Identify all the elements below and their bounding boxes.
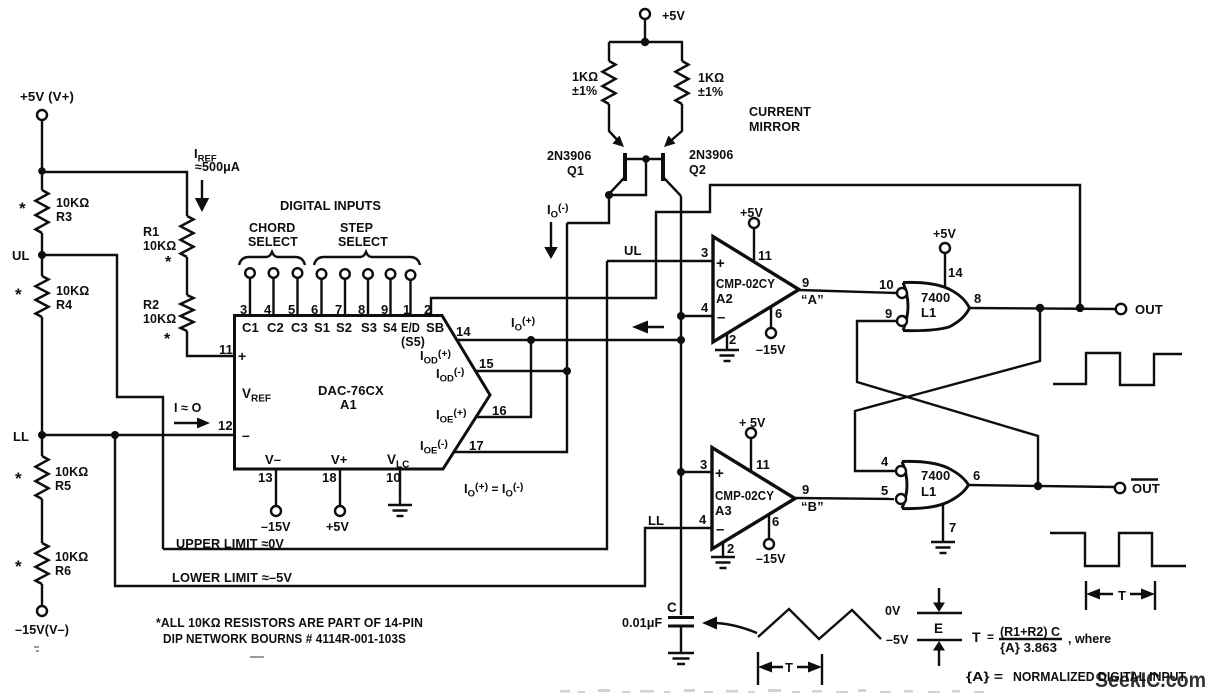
svg-text:C2: C2 — [267, 320, 284, 335]
note all 10K resistors — [156, 615, 423, 646]
DAC input labels — [242, 320, 444, 349]
svg-text:VREF: VREF — [242, 386, 271, 405]
wire R3 to UL — [41, 233, 43, 255]
svg-text:4: 4 — [881, 454, 889, 469]
A3 -15V supply — [756, 514, 786, 566]
node pin14 junction — [527, 336, 535, 344]
svg-text:T: T — [972, 629, 981, 645]
svg-text:MIRROR: MIRROR — [749, 120, 800, 134]
svg-text:–15V: –15V — [261, 520, 291, 534]
svg-text:*: * — [15, 285, 22, 304]
wire R1 to R2 — [186, 257, 188, 295]
DAC pin 18 V+ — [322, 452, 349, 534]
DAC pin 14 IOD(+) — [420, 324, 471, 367]
svg-text:9: 9 — [802, 275, 809, 290]
svg-text:S4: S4 — [383, 320, 398, 335]
svg-text:(S5): (S5) — [401, 335, 425, 349]
svg-text:*: * — [15, 557, 22, 576]
wire bus to resistors — [609, 42, 682, 61]
svg-text:C3: C3 — [291, 320, 308, 335]
op-amp U A3 — [712, 448, 795, 550]
svg-text:+5V: +5V — [933, 227, 956, 241]
wire lower limit branch down — [115, 435, 712, 586]
svg-text:14: 14 — [456, 324, 471, 339]
svg-text:+: + — [716, 255, 725, 272]
svg-text:R6: R6 — [55, 564, 71, 578]
svg-text:10: 10 — [386, 470, 401, 485]
svg-text:S2: S2 — [336, 320, 352, 335]
svg-text:IO(+): IO(+) — [511, 315, 535, 334]
svg-text:11: 11 — [219, 342, 233, 357]
dimension T triangle — [758, 652, 822, 685]
wire +5V rail down to R3 — [41, 120, 43, 190]
formula T equals — [972, 624, 1111, 655]
svg-text:9: 9 — [885, 306, 892, 321]
svg-text:E: E — [934, 621, 943, 636]
svg-text:±1%: ±1% — [698, 85, 723, 99]
svg-text:–: – — [716, 521, 724, 538]
svg-text:5: 5 — [881, 483, 888, 498]
svg-text:2N3906: 2N3906 — [547, 149, 591, 163]
label CURRENT MIRROR — [749, 105, 811, 134]
svg-text:=: = — [987, 630, 994, 644]
resistor 1K left — [572, 61, 616, 104]
svg-text:IOE(+): IOE(+) — [436, 407, 466, 426]
svg-text:“A”: “A” — [801, 292, 824, 307]
node LL branch — [111, 431, 119, 439]
svg-text:12: 12 — [218, 418, 233, 433]
svg-text:IOD(+): IOD(+) — [420, 348, 451, 367]
svg-text:15: 15 — [479, 356, 494, 371]
svg-text:*: * — [15, 469, 22, 488]
A3 pin labels — [699, 457, 824, 556]
svg-text:C: C — [667, 600, 677, 615]
arrow IO- down — [544, 222, 558, 259]
ground at capacitor — [668, 653, 694, 664]
resistor R2 — [143, 295, 194, 348]
resistor R1 — [143, 216, 194, 271]
gate2 input bubbles — [896, 466, 906, 504]
svg-text:4: 4 — [701, 300, 709, 315]
node IO+ junction — [677, 336, 685, 344]
nand gate L1a — [903, 282, 970, 330]
ground at VLC — [388, 505, 412, 516]
pin numbers top of DAC — [240, 302, 431, 317]
svg-text:0.01μF: 0.01μF — [622, 616, 662, 630]
A2 -15V supply — [756, 306, 786, 357]
node Q1 collector — [605, 191, 613, 199]
label IREF — [194, 146, 240, 174]
arrow current direction left — [632, 321, 664, 334]
svg-text:R4: R4 — [56, 298, 72, 312]
svg-text:DAC-76CX: DAC-76CX — [318, 383, 384, 398]
svg-text:1KΩ: 1KΩ — [572, 70, 598, 84]
svg-text:7400: 7400 — [921, 468, 950, 483]
paper artifacts — [34, 646, 264, 658]
svg-text:SELECT: SELECT — [338, 235, 388, 249]
svg-text:3: 3 — [700, 457, 707, 472]
terminal OUTbar — [1115, 480, 1160, 497]
wire pin17 line to IO- — [454, 223, 567, 452]
node pin15 junction — [563, 367, 571, 375]
svg-text:–: – — [717, 309, 725, 326]
faint page-edge artifacts — [560, 689, 984, 693]
svg-text:SeekIC.com: SeekIC.com — [1095, 668, 1206, 692]
svg-text:L1: L1 — [921, 305, 936, 320]
svg-text:CMP-02CY: CMP-02CY — [716, 276, 775, 291]
A2 pin2 ground — [715, 334, 739, 361]
wire cross couple out to gate2 pin4 — [855, 308, 1040, 471]
wire IO- from Q1 collector — [567, 195, 609, 223]
svg-text:–15V: –15V — [756, 343, 786, 357]
svg-text:V–: V– — [265, 452, 281, 467]
brace step — [314, 252, 420, 265]
wire UL to A2 pin3 — [607, 260, 712, 262]
capacitor C1 — [622, 600, 694, 653]
svg-text:–5V: –5V — [886, 633, 909, 647]
wire mirror top bus — [609, 41, 683, 43]
input terminal S4 — [386, 269, 396, 315]
wire A2 pin4 — [681, 315, 712, 317]
svg-text:10: 10 — [879, 277, 894, 292]
resistor R5 — [15, 456, 88, 499]
svg-text:8: 8 — [974, 291, 981, 306]
input terminal S1 — [317, 269, 327, 315]
wire base interconnect — [625, 158, 663, 160]
svg-text:+: + — [238, 348, 246, 364]
DAC name label — [318, 383, 384, 412]
svg-text:10KΩ: 10KΩ — [55, 465, 88, 479]
svg-text:(R1+R2) C: (R1+R2) C — [1000, 624, 1061, 639]
wire SB feedback from OUT — [431, 185, 1080, 315]
svg-text:S1: S1 — [314, 320, 330, 335]
terminal OUT — [1116, 302, 1163, 317]
A3 pin2 ground — [711, 542, 735, 568]
gate1 +5V supply — [933, 227, 956, 288]
svg-text:6: 6 — [772, 514, 779, 529]
svg-text:7400: 7400 — [921, 290, 950, 305]
wire pin15 line — [476, 370, 567, 372]
DAC pin 10 VLC — [386, 452, 409, 505]
svg-text:*: * — [19, 199, 26, 218]
wire pin16 line to IO+ — [476, 340, 531, 417]
wire LL to R5 — [41, 435, 43, 456]
svg-text:2N3906: 2N3906 — [689, 148, 733, 162]
wire cap node from Q2 collector — [680, 196, 682, 615]
svg-text:L1: L1 — [921, 484, 936, 499]
svg-text:DIGITAL INPUTS: DIGITAL INPUTS — [280, 198, 381, 213]
node top bus — [641, 38, 649, 46]
svg-text:UL: UL — [12, 248, 30, 263]
svg-text:I ≈ O: I ≈ O — [174, 401, 202, 415]
svg-text:≈500μA: ≈500μA — [195, 160, 240, 174]
svg-text:C1: C1 — [242, 320, 259, 335]
input terminal C2 — [269, 268, 279, 315]
svg-text:10KΩ: 10KΩ — [143, 239, 176, 253]
svg-text:17: 17 — [469, 438, 484, 453]
terminal +5V current mirror — [640, 9, 685, 42]
DAC pin 16 IOE(+) — [436, 403, 507, 426]
svg-text:10KΩ: 10KΩ — [143, 312, 176, 326]
DAC pin 12 — [218, 418, 250, 443]
svg-text:6: 6 — [775, 306, 782, 321]
wire R6 to -15V terminal — [41, 584, 43, 606]
svg-text:IO(+) = IO(-): IO(+) = IO(-) — [464, 481, 523, 500]
svg-text:CHORD: CHORD — [249, 221, 295, 235]
svg-text:Q1: Q1 — [567, 164, 584, 178]
svg-text:+5V: +5V — [326, 520, 349, 534]
svg-text:6: 6 — [973, 468, 980, 483]
DAC pin 15 IOD(-) — [436, 356, 494, 385]
input terminal S3 — [363, 269, 373, 315]
gate2 pin labels — [881, 454, 980, 535]
svg-text:STEP: STEP — [340, 221, 373, 235]
svg-text:4: 4 — [699, 512, 707, 527]
waveform triangle — [758, 609, 881, 639]
svg-text:Q2: Q2 — [689, 163, 706, 177]
svg-text:OUT: OUT — [1135, 302, 1163, 317]
svg-text:+5V (V+): +5V (V+) — [20, 90, 74, 104]
svg-text:LL: LL — [13, 429, 29, 444]
wire branch to R1 — [42, 172, 187, 216]
svg-text:–15V: –15V — [756, 552, 786, 566]
svg-text:R5: R5 — [55, 479, 71, 493]
svg-text:LL: LL — [648, 513, 664, 528]
terminal -15V (V-) — [15, 606, 69, 637]
svg-text:R1: R1 — [143, 225, 159, 239]
svg-text:, where: , where — [1068, 632, 1111, 646]
gate1 pin labels — [879, 265, 981, 321]
svg-text:T: T — [1118, 588, 1126, 603]
input terminal C3 — [293, 268, 303, 315]
label step select — [338, 221, 388, 249]
svg-text:A3: A3 — [715, 503, 732, 518]
svg-text:UL: UL — [624, 243, 642, 258]
svg-text:T: T — [785, 660, 793, 675]
svg-text:V+: V+ — [331, 452, 348, 467]
svg-text:1KΩ: 1KΩ — [698, 71, 724, 85]
resistor R3 — [19, 190, 89, 233]
svg-text:±1%: ±1% — [572, 84, 597, 98]
svg-text:0V: 0V — [885, 604, 901, 618]
svg-text:“B”: “B” — [801, 499, 824, 514]
wire gate2 output — [968, 485, 1115, 487]
svg-text:14: 14 — [948, 265, 963, 280]
A2 pin labels — [701, 245, 824, 347]
svg-text:{A} =: {A} = — [966, 669, 1003, 684]
svg-text:A2: A2 — [716, 291, 733, 306]
wire R5 to R6 — [41, 499, 43, 543]
wire gate1 output — [969, 308, 1116, 309]
svg-text:16: 16 — [492, 403, 507, 418]
svg-text:9: 9 — [802, 482, 809, 497]
terminal +5V (V+) — [20, 90, 74, 120]
node junction at IREF branch — [38, 167, 46, 175]
gate2 pin7 ground — [931, 504, 955, 553]
node UL — [12, 248, 46, 263]
svg-text:CMP-02CY: CMP-02CY — [715, 488, 774, 503]
wire Q1 diode connection — [609, 159, 646, 195]
DAC pin 17 IOE(-) — [420, 438, 484, 457]
wire A3 pin3 — [681, 471, 712, 473]
wire A3 output to gate2 — [795, 498, 894, 499]
arrow to capacitor — [702, 617, 757, 634]
svg-text:7: 7 — [949, 520, 956, 535]
svg-text:{A} 3.863: {A} 3.863 — [1000, 640, 1057, 655]
node A3 pin3 junction — [677, 468, 685, 476]
svg-text:2: 2 — [727, 541, 734, 556]
DAC pin 13 V- — [258, 452, 291, 534]
svg-text:13: 13 — [258, 470, 273, 485]
svg-text:A1: A1 — [340, 397, 357, 412]
svg-text:IOE(-): IOE(-) — [420, 438, 448, 457]
svg-text:11: 11 — [756, 457, 770, 472]
input terminal S2 — [340, 269, 350, 315]
wire UL to R4 — [41, 255, 43, 276]
svg-text:2: 2 — [729, 332, 736, 347]
svg-text:DIP NETWORK BOURNS # 4114R-001: DIP NETWORK BOURNS # 4114R-001-103S — [163, 631, 406, 646]
wire gate1 pin9 from gate2 output — [857, 321, 1038, 486]
DAC U A1 outline — [235, 316, 491, 470]
svg-text:IO(-): IO(-) — [547, 202, 569, 221]
svg-text:CURRENT: CURRENT — [749, 105, 811, 119]
svg-text:OUT: OUT — [1132, 481, 1160, 496]
svg-text:SELECT: SELECT — [248, 235, 298, 249]
brace chord — [239, 252, 305, 265]
node out junction 2 — [1076, 304, 1084, 312]
A3 +5V supply — [739, 416, 766, 471]
DAC pin 11 — [219, 342, 246, 364]
svg-text:*: * — [165, 254, 172, 271]
nand gate L1b — [902, 461, 969, 508]
input terminal E/D — [406, 270, 416, 315]
svg-text:10KΩ: 10KΩ — [56, 196, 89, 210]
node A2 pin4 junction — [677, 312, 685, 320]
svg-text:*ALL 10KΩ RESISTORS ARE PART O: *ALL 10KΩ RESISTORS ARE PART OF 14-PIN — [156, 615, 423, 630]
annotation E level lines — [917, 588, 962, 666]
node base junction — [642, 155, 650, 163]
wire A2 output to gate1 — [799, 290, 897, 293]
transistor Q2 — [663, 104, 733, 196]
wire IO+ line pin14 — [457, 339, 681, 341]
resistor R6 — [15, 543, 88, 584]
svg-text:18: 18 — [322, 470, 337, 485]
waveform OUTbar square — [1050, 533, 1186, 566]
waveform OUT square — [1053, 353, 1182, 385]
wire R2 to DAC pin 11 — [187, 331, 235, 356]
arrow IREF down — [195, 180, 209, 212]
svg-text:+: + — [715, 465, 724, 482]
svg-text:–: – — [242, 427, 250, 443]
node LL — [13, 429, 46, 444]
svg-text:3: 3 — [701, 245, 708, 260]
node outbar junction — [1034, 482, 1042, 490]
svg-text:–15V(V–): –15V(V–) — [15, 623, 69, 637]
svg-text:10KΩ: 10KΩ — [56, 284, 89, 298]
svg-text:E/D: E/D — [401, 320, 420, 335]
svg-text:LOWER LIMIT ≈–5V: LOWER LIMIT ≈–5V — [172, 570, 292, 585]
svg-text:*: * — [164, 331, 171, 348]
node out junction 1 — [1036, 304, 1044, 312]
wire UL branch right — [42, 255, 163, 549]
resistor R4 — [15, 276, 89, 317]
label chord select — [248, 221, 298, 249]
resistor 1K right — [676, 61, 725, 104]
svg-text:SB: SB — [426, 320, 444, 335]
dimension T outbar — [1086, 581, 1155, 610]
A2 +5V supply — [740, 206, 763, 261]
wire R4 to LL — [41, 317, 43, 435]
arrow I approx 0 — [174, 418, 210, 429]
svg-text:R3: R3 — [56, 210, 72, 224]
svg-text:S3: S3 — [361, 320, 377, 335]
wire upper limit line — [163, 261, 607, 549]
svg-text:10KΩ: 10KΩ — [55, 550, 88, 564]
transistor Q1 — [547, 104, 625, 194]
wire LL to DAC pin 12 — [42, 434, 235, 436]
svg-text:11: 11 — [758, 248, 772, 263]
op-amp U A2 — [713, 237, 799, 343]
gate1 input bubbles — [897, 288, 907, 326]
input terminal C1 — [245, 268, 255, 315]
svg-text:R2: R2 — [143, 298, 159, 312]
svg-text:+5V: +5V — [662, 9, 685, 23]
svg-text:IOD(-): IOD(-) — [436, 366, 464, 385]
